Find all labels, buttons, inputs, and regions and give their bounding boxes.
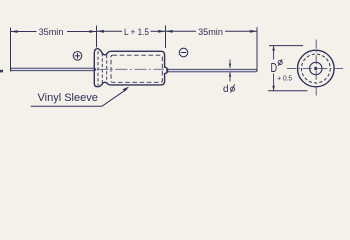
end view inner circle xyxy=(310,62,322,74)
dimension line 35min right xyxy=(166,30,257,33)
D dimension vertical line with arrows xyxy=(272,46,275,91)
capacitor centerline xyxy=(97,68,165,70)
capacitor body outline xyxy=(94,49,167,87)
label D-phi xyxy=(271,59,283,75)
polarity minus symbol xyxy=(179,48,188,57)
svg-text:Vinyl Sleeve: Vinyl Sleeve xyxy=(38,92,98,104)
capacitor sleeve hatch dashed verticals xyxy=(98,51,107,85)
D dimension bottom tick xyxy=(268,90,308,92)
left lead wire xyxy=(11,68,96,71)
svg-text:L + 1.5: L + 1.5 xyxy=(124,26,149,37)
end view vertical centerline xyxy=(315,40,317,96)
end view outer circle xyxy=(298,50,335,87)
end view sleeve dashed circle xyxy=(301,54,330,83)
svg-text:d: d xyxy=(223,84,229,95)
extension tick mid-left xyxy=(96,26,98,48)
svg-text:D: D xyxy=(271,60,278,75)
svg-text:35min: 35min xyxy=(39,26,64,37)
end view horizontal centerline xyxy=(287,68,345,70)
right lead wire xyxy=(167,69,258,72)
capacitor inner dashed outline xyxy=(111,55,162,82)
dimension line 35min left xyxy=(11,30,97,33)
extension line left xyxy=(10,28,12,72)
extension line right xyxy=(256,27,258,71)
scan edge artifact xyxy=(0,70,3,73)
polarity plus symbol xyxy=(73,52,82,61)
dimension line L+1.5 xyxy=(97,30,165,33)
svg-text:35min: 35min xyxy=(198,26,223,37)
lead diameter dimension line xyxy=(229,60,231,82)
vinyl sleeve leader line xyxy=(31,86,130,106)
D dimension top tick xyxy=(269,45,303,47)
label d-phi xyxy=(223,84,235,95)
svg-text:+ 0.5: + 0.5 xyxy=(277,74,292,83)
end view center lead dot xyxy=(314,67,317,70)
extension tick mid-right xyxy=(165,26,167,49)
